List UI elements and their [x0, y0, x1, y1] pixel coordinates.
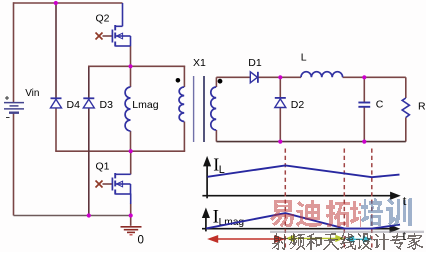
svg-text:Q2: Q2: [96, 12, 110, 24]
svg-text:X1: X1: [193, 57, 206, 69]
svg-text:D2: D2: [291, 99, 305, 111]
svg-text:L: L: [301, 51, 307, 63]
svg-text:Q1: Q1: [96, 161, 110, 173]
svg-text:R: R: [418, 100, 426, 112]
svg-text:D4: D4: [67, 99, 81, 111]
svg-text:Vin: Vin: [25, 88, 39, 99]
svg-text:0: 0: [138, 234, 144, 246]
svg-text:t: t: [402, 229, 406, 244]
svg-text:Lmag: Lmag: [132, 99, 158, 111]
svg-text:D3: D3: [100, 99, 114, 111]
svg-text:t: t: [403, 194, 407, 209]
svg-text:D1: D1: [248, 57, 262, 69]
svg-text:C: C: [376, 99, 384, 111]
